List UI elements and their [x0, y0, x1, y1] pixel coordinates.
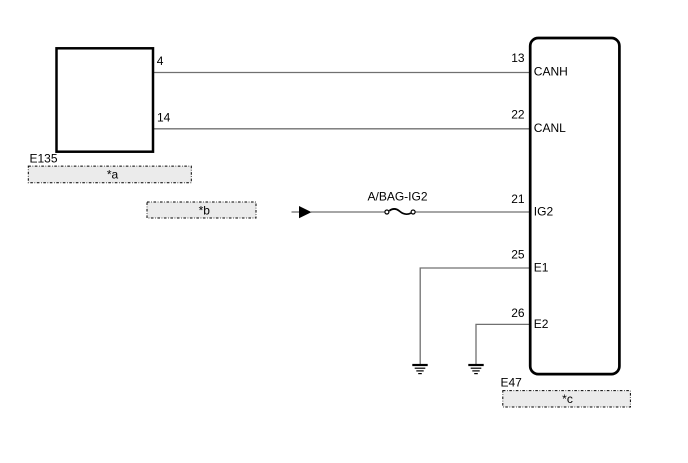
svg-text:*b: *b	[199, 203, 211, 217]
svg-text:22: 22	[511, 107, 525, 121]
svg-text:IG2: IG2	[534, 205, 554, 219]
svg-text:CANH: CANH	[534, 65, 568, 79]
svg-text:CANL: CANL	[534, 121, 566, 135]
svg-text:26: 26	[511, 306, 525, 320]
svg-text:E1: E1	[534, 261, 549, 275]
svg-text:13: 13	[511, 51, 525, 65]
svg-text:E135: E135	[30, 151, 58, 165]
svg-text:25: 25	[511, 248, 525, 262]
svg-text:21: 21	[511, 192, 525, 206]
svg-text:A/BAG-IG2: A/BAG-IG2	[367, 189, 427, 203]
svg-text:*c: *c	[562, 392, 573, 406]
svg-text:E47: E47	[501, 375, 523, 389]
svg-text:*a: *a	[107, 168, 119, 182]
svg-text:4: 4	[157, 54, 164, 68]
svg-text:14: 14	[157, 111, 171, 125]
svg-text:E2: E2	[534, 317, 549, 331]
